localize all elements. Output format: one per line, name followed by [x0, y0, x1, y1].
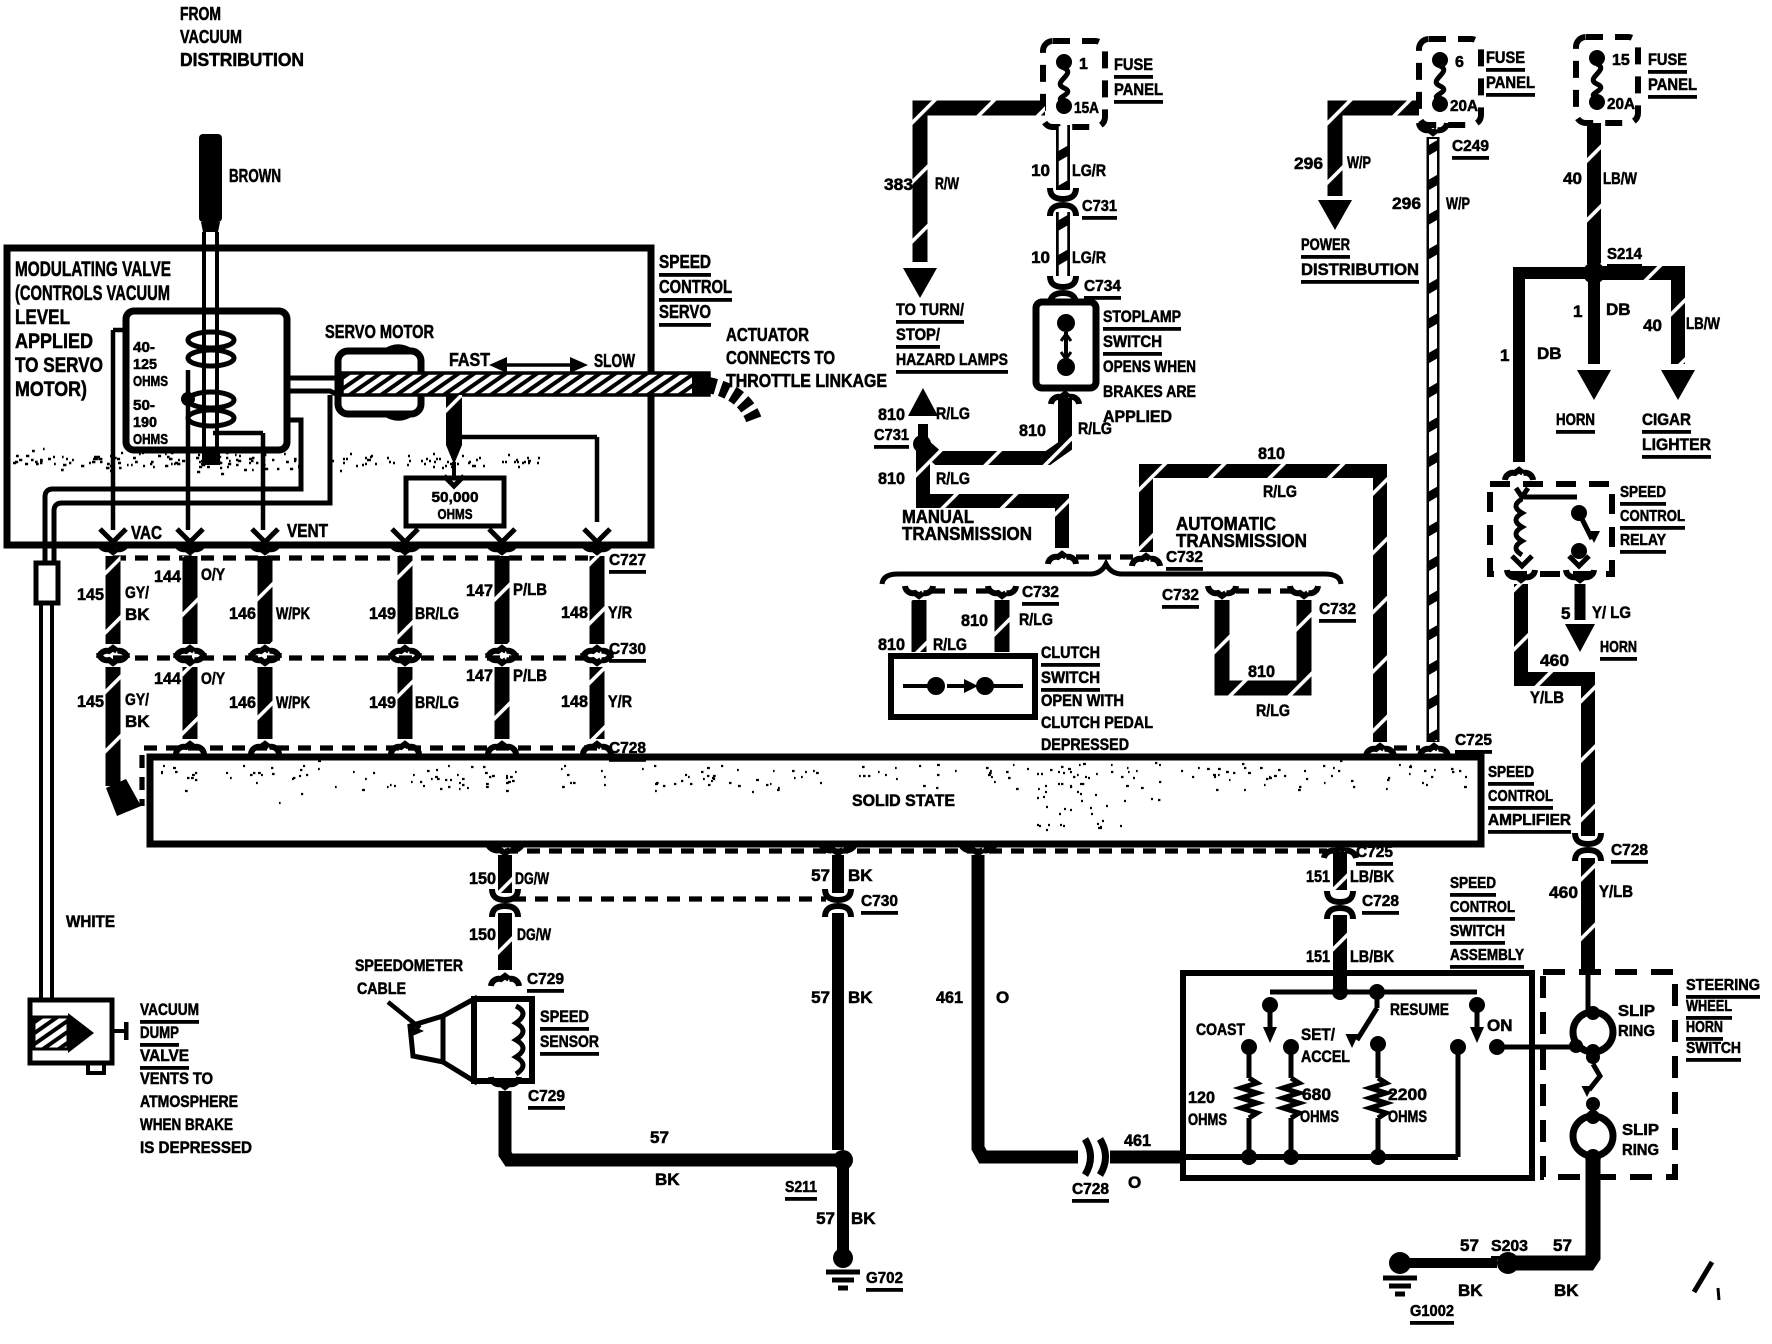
svg-text:ON: ON [1487, 1016, 1513, 1035]
svg-text:FUSE: FUSE [1486, 48, 1525, 67]
svg-text:15A: 15A [1074, 100, 1099, 117]
ground G702 [833, 1248, 853, 1268]
svg-text:LB/BK: LB/BK [1350, 867, 1395, 886]
svg-text:147: 147 [466, 666, 493, 685]
svg-text:RING: RING [1618, 1023, 1655, 1040]
wire 5 Y/LG to horn [1575, 584, 1586, 620]
svg-text:TO SERVO: TO SERVO [15, 354, 103, 377]
svg-text:POWER: POWER [1301, 235, 1350, 254]
svg-text:810: 810 [1019, 421, 1046, 440]
svg-text:G1002: G1002 [1410, 1303, 1454, 1320]
svg-text:461: 461 [1124, 1131, 1151, 1150]
svg-text:C731: C731 [1082, 198, 1117, 215]
svg-text:WHEEL: WHEEL [1686, 998, 1732, 1015]
wire 383 R/W [920, 108, 1045, 262]
wire 810 R/LG into clutch switch right [995, 600, 1010, 652]
svg-text:R/LG: R/LG [936, 469, 970, 488]
svg-text:C728: C728 [1362, 893, 1399, 910]
speed control servo enclosure box [7, 248, 651, 545]
svg-text:DISTRIBUTION: DISTRIBUTION [1301, 260, 1419, 279]
svg-text:190: 190 [133, 414, 157, 431]
svg-text:O: O [996, 988, 1009, 1007]
svg-text:150: 150 [469, 925, 496, 944]
svg-text:ATMOSPHERE: ATMOSPHERE [140, 1092, 238, 1111]
svg-text:SWITCH: SWITCH [1450, 923, 1505, 940]
wire 810 R/LG loop (automatic) [1222, 600, 1304, 688]
svg-text:Y/LB: Y/LB [1530, 688, 1564, 707]
svg-text:FUSE: FUSE [1114, 55, 1153, 74]
svg-text:STOPLAMP: STOPLAMP [1103, 307, 1181, 326]
svg-text:VACUUM: VACUUM [180, 27, 242, 47]
svg-text:SPEED: SPEED [1620, 484, 1666, 501]
svg-text:148: 148 [561, 603, 588, 622]
dashed line to C730 [513, 896, 826, 901]
wire 810 R/LG into clutch switch left [912, 600, 927, 652]
svg-text:810: 810 [878, 405, 905, 424]
connector C728 (relay wire) [1575, 833, 1601, 844]
svg-text:DUMP: DUMP [140, 1023, 179, 1042]
wire from lower slip ring [1516, 1158, 1593, 1263]
svg-text:GY/: GY/ [125, 583, 149, 602]
svg-text:6: 6 [1455, 54, 1464, 71]
svg-text:SWITCH: SWITCH [1041, 668, 1100, 687]
svg-text:SERVO: SERVO [659, 302, 711, 322]
svg-text:C732: C732 [1166, 549, 1203, 566]
svg-text:120: 120 [1188, 1088, 1215, 1107]
dashed link manual to C732 [1076, 554, 1140, 559]
svg-text:WHEN BRAKE: WHEN BRAKE [140, 1115, 233, 1134]
svg-text:BK: BK [851, 1209, 876, 1228]
svg-text:144: 144 [154, 567, 182, 586]
svg-text:144: 144 [154, 669, 182, 688]
svg-text:STOP/: STOP/ [896, 325, 940, 344]
svg-text:BK: BK [125, 712, 150, 731]
svg-text:PANEL: PANEL [1486, 73, 1535, 92]
node coil tap junction [181, 392, 195, 406]
resume arm [1375, 992, 1380, 1008]
horn switch contact between rings [1586, 1050, 1600, 1064]
svg-text:COAST: COAST [1196, 1020, 1246, 1039]
svg-text:151: 151 [1306, 947, 1330, 966]
wire 1 DB to horn [1588, 273, 1600, 364]
svg-text:R/LG: R/LG [1078, 419, 1112, 438]
svg-text:680: 680 [1302, 1085, 1331, 1104]
svg-text:57: 57 [650, 1128, 669, 1147]
svg-text:C249: C249 [1452, 138, 1489, 155]
svg-text:C732: C732 [1162, 587, 1199, 604]
wire VAC feed (144) [186, 370, 191, 530]
dashed line amplifier outputs to C725 [505, 848, 1327, 853]
svg-text:296: 296 [1392, 194, 1421, 213]
svg-text:DB: DB [1606, 300, 1631, 319]
svg-text:C728: C728 [1611, 842, 1648, 859]
svg-text:10: 10 [1031, 161, 1050, 180]
svg-text:VACUUM: VACUUM [140, 1000, 199, 1019]
connector C249 [1419, 123, 1447, 133]
svg-text:460: 460 [1540, 651, 1569, 670]
svg-text:Y/R: Y/R [608, 692, 632, 711]
resistor 50,000 OHMS [406, 478, 504, 526]
fuse panel 1 (15A) [1043, 41, 1105, 127]
vacuum line to dump valve (WHITE tube) [45, 420, 301, 563]
svg-text:PANEL: PANEL [1648, 75, 1697, 94]
svg-text:R/LG: R/LG [933, 635, 967, 654]
stoplamp switch [1036, 302, 1096, 388]
svg-text:R/LG: R/LG [936, 404, 970, 423]
svg-text:OHMS: OHMS [1300, 1107, 1339, 1126]
svg-text:TRANSMISSION: TRANSMISSION [902, 524, 1032, 544]
svg-text:SET/: SET/ [1301, 1025, 1335, 1044]
node junction 810 [913, 435, 931, 453]
svg-text:HAZARD LAMPS: HAZARD LAMPS [896, 350, 1008, 369]
connector below stoplamp switch [1051, 394, 1079, 404]
svg-text:DG/W: DG/W [517, 925, 552, 944]
connector at manual branch end [1048, 554, 1076, 564]
wire 1 DB to speed control relay [1519, 273, 1594, 462]
svg-text:810: 810 [1258, 444, 1285, 463]
svg-text:RELAY: RELAY [1620, 532, 1666, 549]
wire 145 inside servo box [113, 328, 126, 333]
svg-text:146: 146 [229, 604, 256, 623]
resume contact and resistor 2200 OHMS [1370, 1036, 1386, 1052]
wire 57 BK from sensor [505, 1091, 836, 1160]
svg-text:461: 461 [936, 988, 963, 1007]
svg-text:R/W: R/W [935, 174, 960, 193]
svg-text:BK: BK [125, 605, 150, 624]
resistor 120 OHMS [1247, 1047, 1252, 1078]
wire 296 W/P long drop [1427, 137, 1440, 742]
svg-text:C725: C725 [1455, 732, 1492, 749]
svg-text:C731: C731 [874, 427, 909, 444]
fuse panel 2 (20A) [1419, 39, 1481, 125]
svg-text:SPEED: SPEED [540, 1007, 589, 1026]
speckle noise in servo box [13, 449, 540, 474]
wires 145/144/146/149/147/148 row 1 [99, 542, 127, 552]
connector C734 [1050, 276, 1076, 287]
svg-text:FROM: FROM [180, 4, 221, 24]
svg-text:VENTS TO: VENTS TO [140, 1069, 213, 1088]
connector row C727 (dashed) [113, 555, 597, 560]
svg-text:Y/R: Y/R [608, 603, 632, 622]
svg-text:RING: RING [1622, 1142, 1659, 1159]
svg-text:57: 57 [816, 1209, 835, 1228]
svg-text:SENSOR: SENSOR [540, 1032, 599, 1051]
speed control relay (dashed box) [1490, 484, 1612, 574]
speed control switch assembly box [1183, 973, 1532, 1178]
wire 151 LB/BK [1324, 848, 1356, 858]
svg-text:57: 57 [1553, 1236, 1572, 1255]
wire 10 LG/R lower [1056, 212, 1070, 276]
svg-text:15: 15 [1612, 52, 1630, 69]
svg-text:57: 57 [1460, 1236, 1479, 1255]
servo motor body [338, 351, 421, 414]
switch assembly bottom rail [1186, 1154, 1458, 1160]
wire 40 LB/W [1587, 123, 1601, 264]
svg-text:R/LG: R/LG [1256, 701, 1290, 720]
svg-text:P/LB: P/LB [513, 580, 547, 599]
svg-text:125: 125 [133, 356, 157, 373]
svg-text:CLUTCH PEDAL: CLUTCH PEDAL [1041, 713, 1153, 732]
svg-text:SPEEDOMETER: SPEEDOMETER [355, 956, 463, 975]
svg-text:THROTTLE LINKAGE: THROTTLE LINKAGE [726, 371, 887, 391]
wire 461 O into switch assembly [1110, 1151, 1186, 1164]
clutch switch branch connectors C732 [905, 586, 933, 596]
svg-text:MOTOR): MOTOR) [15, 378, 87, 401]
svg-text:Y/LB: Y/LB [1599, 882, 1633, 901]
wire 57 BK to ground G1002 [1407, 1258, 1497, 1268]
svg-text:OHMS: OHMS [438, 506, 473, 523]
svg-text:50-: 50- [133, 397, 155, 414]
svg-text:10: 10 [1031, 248, 1050, 267]
svg-text:LB/BK: LB/BK [1350, 947, 1395, 966]
svg-text:810: 810 [878, 469, 905, 488]
svg-text:VAC: VAC [131, 523, 162, 543]
svg-text:151: 151 [1306, 867, 1330, 886]
slip ring upper [1573, 1012, 1613, 1052]
svg-text:S211: S211 [785, 1179, 817, 1196]
svg-text:O/Y: O/Y [201, 565, 226, 584]
svg-text:DEPRESSED: DEPRESSED [1041, 735, 1129, 754]
actuator rod (hatched bar) [342, 373, 709, 395]
svg-text:LIGHTER: LIGHTER [1642, 435, 1711, 454]
svg-text:40: 40 [1643, 316, 1662, 335]
svg-text:150: 150 [469, 869, 496, 888]
svg-text:BROWN: BROWN [229, 166, 281, 186]
svg-text:460: 460 [1549, 883, 1578, 902]
wire 810 R/LG from stoplamp switch to junction [922, 398, 1065, 458]
svg-text:40-: 40- [133, 339, 155, 356]
brace for C732 options [882, 564, 1341, 584]
svg-text:C730: C730 [609, 641, 646, 658]
vacuum hose from distribution (BROWN) [199, 134, 222, 222]
svg-text:C728: C728 [1072, 1181, 1109, 1198]
svg-text:C732: C732 [1022, 584, 1059, 601]
wire 57 BK to ground G702 [837, 1160, 849, 1252]
svg-text:HORN: HORN [1556, 410, 1595, 429]
svg-text:CIGAR: CIGAR [1642, 410, 1691, 429]
svg-text:W/P: W/P [1446, 194, 1470, 213]
svg-text:WHITE: WHITE [66, 912, 115, 931]
svg-text:FAST: FAST [449, 350, 490, 370]
svg-text:148: 148 [561, 692, 588, 711]
svg-text:Y/ LG: Y/ LG [1592, 603, 1631, 622]
svg-text:ASSEMBLY: ASSEMBLY [1450, 947, 1524, 964]
svg-text:BK: BK [848, 988, 873, 1007]
svg-text:149: 149 [369, 604, 396, 623]
svg-text:W/P: W/P [1347, 153, 1371, 172]
wire 145 GY/BK drop to amplifier [99, 653, 127, 663]
svg-text:LEVEL: LEVEL [15, 306, 70, 329]
svg-text:S214: S214 [1607, 246, 1642, 263]
svg-text:40: 40 [1563, 169, 1582, 188]
wires row 2 [176, 653, 204, 663]
fuse panel 3 (20A) [1576, 37, 1638, 123]
speed control amplifier box (SOLID STATE) [150, 757, 1481, 844]
arrows into connector C727 [100, 529, 126, 542]
svg-text:C727: C727 [609, 552, 646, 569]
splice S214 node [1583, 262, 1605, 284]
svg-text:VALVE: VALVE [140, 1046, 189, 1065]
svg-text:SPEED: SPEED [1488, 764, 1534, 781]
svg-text:810: 810 [1248, 662, 1275, 681]
svg-text:296: 296 [1294, 154, 1323, 173]
actuator cable hook to throttle [692, 373, 709, 396]
svg-text:383: 383 [884, 175, 913, 194]
svg-text:HORN: HORN [1686, 1019, 1723, 1036]
relay internals: coil [1524, 495, 1577, 500]
svg-text:SOLID STATE: SOLID STATE [852, 791, 955, 810]
svg-text:SERVO MOTOR: SERVO MOTOR [325, 322, 434, 342]
svg-text:ACTUATOR: ACTUATOR [726, 325, 809, 345]
svg-text:BRAKES ARE: BRAKES ARE [1103, 382, 1196, 401]
svg-text:W/PK: W/PK [276, 693, 311, 712]
svg-text:R/LG: R/LG [1019, 610, 1053, 629]
splice S211 [833, 1150, 853, 1170]
svg-text:810: 810 [961, 611, 988, 630]
svg-text:STEERING: STEERING [1686, 977, 1760, 994]
switch assembly top rail [1338, 973, 1343, 992]
svg-text:CONTROL: CONTROL [1488, 788, 1553, 805]
wire 810 R/LG automatic transmission branch [1146, 471, 1380, 742]
stray pen mark bottom right [1694, 1262, 1712, 1292]
wire 460 Y/LB to slip ring [1581, 858, 1595, 975]
ground G1002 [1389, 1252, 1411, 1274]
svg-text:BK: BK [848, 866, 873, 885]
svg-text:C730: C730 [861, 893, 898, 910]
svg-text:LG/R: LG/R [1072, 248, 1106, 267]
svg-text:R/LG: R/LG [1263, 482, 1297, 501]
svg-text:CLUTCH: CLUTCH [1041, 643, 1100, 662]
connector C728 in line [1091, 1145, 1101, 1169]
svg-text:OPENS WHEN: OPENS WHEN [1103, 357, 1196, 376]
svg-text:O/Y: O/Y [201, 669, 226, 688]
svg-text:57: 57 [811, 866, 830, 885]
svg-text:APPLIED: APPLIED [15, 330, 93, 353]
steering wheel horn switch (dashed box) [1543, 972, 1675, 1177]
svg-text:CONTROL: CONTROL [1450, 899, 1515, 916]
svg-text:149: 149 [369, 693, 396, 712]
clutch switch [891, 656, 1035, 717]
svg-text:FUSE: FUSE [1648, 50, 1687, 69]
svg-text:(CONTROLS VACUUM: (CONTROLS VACUUM [15, 282, 170, 305]
svg-text:TRANSMISSION: TRANSMISSION [1176, 531, 1307, 551]
wire valve to servo [287, 376, 338, 381]
svg-text:147: 147 [466, 581, 493, 600]
set-accel contact [1283, 1039, 1299, 1055]
svg-text:5: 5 [1561, 604, 1570, 623]
svg-text:CABLE: CABLE [357, 979, 406, 998]
relay internals: switch contact [1571, 505, 1587, 521]
svg-text:P/LB: P/LB [513, 666, 547, 685]
svg-text:810: 810 [878, 635, 905, 654]
svg-text:S203: S203 [1491, 1238, 1528, 1255]
svg-text:BK: BK [655, 1170, 680, 1189]
wire 10 LG/R upper [1056, 125, 1070, 190]
svg-text:2200: 2200 [1388, 1085, 1427, 1104]
svg-text:IS DEPRESSED: IS DEPRESSED [140, 1138, 252, 1157]
connector above relay [1505, 470, 1533, 480]
svg-text:VENT: VENT [287, 521, 328, 541]
coast switch [1262, 997, 1278, 1013]
svg-text:OHMS: OHMS [133, 431, 168, 448]
arrow up to C731 [918, 424, 928, 448]
svg-text:SWITCH: SWITCH [1103, 332, 1162, 351]
wire 461 O from amplifier [961, 843, 996, 853]
svg-text:SLOW: SLOW [594, 351, 635, 371]
svg-text:TO TURN/: TO TURN/ [896, 300, 964, 319]
svg-text:OHMS: OHMS [133, 373, 168, 390]
svg-text:57: 57 [811, 988, 830, 1007]
svg-text:LB/W: LB/W [1603, 169, 1638, 188]
svg-text:MODULATING VALVE: MODULATING VALVE [15, 258, 171, 281]
wire 40 LB/W to cigar lighter [1594, 273, 1678, 364]
svg-text:W/PK: W/PK [276, 604, 311, 623]
ON switch [1469, 997, 1485, 1013]
svg-text:O: O [1128, 1173, 1141, 1192]
svg-text:DISTRIBUTION: DISTRIBUTION [180, 50, 304, 70]
svg-text:145: 145 [77, 692, 104, 711]
connector C731 [1050, 188, 1076, 199]
svg-text:SLIP: SLIP [1618, 1003, 1655, 1020]
svg-text:SWITCH: SWITCH [1686, 1040, 1741, 1057]
svg-text:C725: C725 [1356, 844, 1393, 861]
vacuum dump valve [30, 1000, 112, 1063]
svg-text:OPEN WITH: OPEN WITH [1041, 691, 1124, 710]
wire 460 Y/LB from relay [1521, 584, 1588, 836]
svg-text:CONTROL: CONTROL [659, 277, 732, 297]
modulating valve coil [188, 332, 234, 348]
svg-text:CONNECTS TO: CONNECTS TO [726, 348, 835, 368]
svg-text:C732: C732 [1319, 601, 1356, 618]
svg-text:BR/LG: BR/LG [415, 693, 459, 712]
wire ON contact to slip ring [1497, 1045, 1577, 1050]
svg-text:C729: C729 [527, 971, 564, 988]
relay output connectors [1507, 570, 1535, 580]
svg-text:SPEED: SPEED [1450, 875, 1496, 892]
slip ring lower [1573, 1116, 1613, 1156]
svg-text:OHMS: OHMS [1188, 1110, 1227, 1129]
speedometer cable pointer [388, 1002, 420, 1028]
svg-text:20A: 20A [1450, 98, 1478, 115]
svg-text:LG/R: LG/R [1072, 161, 1106, 180]
svg-text:SLIP: SLIP [1622, 1122, 1659, 1139]
svg-text:GY/: GY/ [125, 690, 149, 709]
svg-text:C729: C729 [528, 1088, 565, 1105]
svg-text:OHMS: OHMS [1388, 1107, 1427, 1126]
svg-text:BK: BK [1458, 1281, 1483, 1300]
svg-text:LB/W: LB/W [1686, 314, 1721, 333]
svg-text:RESUME: RESUME [1390, 1000, 1449, 1019]
splice S203 [1497, 1252, 1519, 1274]
resistor 680 OHMS [1289, 1047, 1294, 1078]
svg-text:C734: C734 [1084, 278, 1121, 295]
wire 150 DG/W [488, 843, 523, 853]
modulating valve body [126, 311, 287, 450]
svg-text:G702: G702 [866, 1270, 903, 1287]
svg-text:20A: 20A [1607, 96, 1635, 113]
svg-text:BR/LG: BR/LG [415, 604, 459, 623]
svg-text:BK: BK [1554, 1281, 1579, 1300]
svg-text:1: 1 [1079, 56, 1088, 73]
svg-text:DG/W: DG/W [515, 869, 550, 888]
wire actuator to 148 feed [462, 435, 597, 440]
svg-text:ACCEL: ACCEL [1301, 1047, 1350, 1066]
svg-text:1: 1 [1573, 302, 1582, 321]
wire 810 R/LG to manual transmission branch [923, 448, 1062, 548]
wire 57 BK from amplifier [821, 843, 856, 853]
svg-text:DB: DB [1537, 344, 1562, 363]
svg-text:50,000: 50,000 [432, 489, 479, 506]
